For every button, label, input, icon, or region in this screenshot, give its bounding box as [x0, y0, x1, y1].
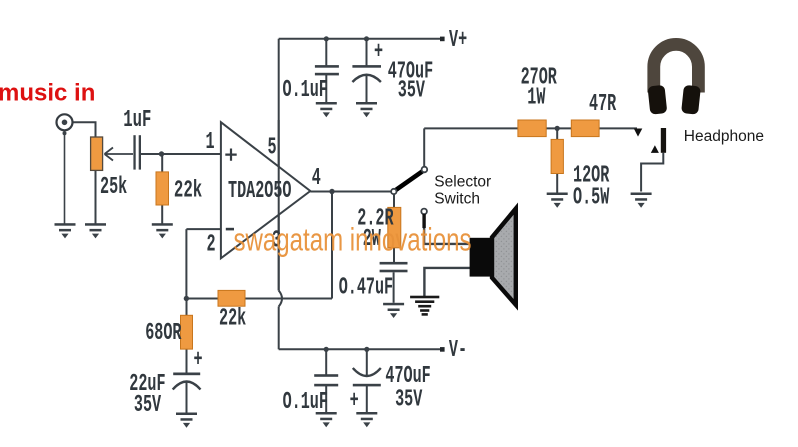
- capacitor 470uF bottom polarized: [353, 368, 381, 386]
- headphone icon left cup: [647, 85, 667, 115]
- headphone jack arrow: [634, 129, 643, 137]
- headphone icon band: [654, 44, 699, 92]
- capacitor 0.47uF plates: [380, 262, 408, 272]
- op-amp minus input symbol: [226, 228, 234, 231]
- wire headphone jack to ground: [641, 153, 663, 192]
- wire 0.1uF top: [325, 39, 327, 103]
- svg-text:O.5W: O.5W: [573, 184, 610, 212]
- wire rail to 270R: [424, 127, 519, 129]
- node 120R junction dot: [555, 126, 560, 131]
- svg-text:V+: V+: [449, 27, 467, 55]
- ground speaker earth: [410, 296, 439, 316]
- ground 120R: [547, 193, 568, 208]
- wire 2.2R to 0.47uF: [393, 248, 395, 262]
- wire 1uF right plate to pin 1: [141, 153, 221, 155]
- svg-text:4: 4: [312, 165, 321, 193]
- wire input jack to pot: [73, 122, 96, 137]
- resistor 22k input: [156, 172, 169, 205]
- headphone jack triangle: [651, 145, 659, 153]
- svg-text:O.1uF: O.1uF: [283, 389, 328, 417]
- input jack connector: [57, 114, 73, 135]
- ground 22k input: [152, 223, 173, 238]
- resistor 2.2R: [388, 207, 401, 247]
- ground 470uF bottom: [356, 412, 377, 427]
- node top rail 0.1uF dot: [324, 36, 329, 41]
- resistor 120R: [551, 139, 563, 173]
- capacitor 0.1uF top plates: [315, 65, 339, 75]
- svg-text:22k: 22k: [174, 178, 202, 205]
- potentiometer 25k: [91, 137, 103, 170]
- op-amp plus input symbol: [225, 149, 236, 161]
- ground 0.1uF bottom: [316, 412, 337, 427]
- svg-text:TDA2O5O: TDA2O5O: [228, 178, 291, 206]
- wire jack to ground: [64, 130, 66, 224]
- ground 22uF: [176, 413, 197, 428]
- selector switch bottom stub: [422, 214, 425, 228]
- wire supply line through op-amp pins 5 and 3: [278, 120, 280, 291]
- node V- terminal dot: [440, 347, 445, 352]
- wire 22uF to ground: [186, 381, 188, 413]
- wire 0.47uF to ground: [393, 272, 395, 303]
- svg-text:+: +: [350, 388, 359, 416]
- wire 470uF top: [366, 39, 368, 103]
- svg-text:music in: music in: [0, 79, 95, 106]
- svg-text:1uF: 1uF: [123, 107, 151, 134]
- ground 470uF top: [356, 102, 377, 117]
- node junction output: [329, 189, 334, 194]
- wire speaker minus to ground: [424, 268, 470, 296]
- svg-text:2: 2: [207, 231, 216, 259]
- wire junction to 22k input resistor and ground: [161, 154, 163, 224]
- node junction input: [159, 151, 164, 156]
- selector switch pole contact: [391, 189, 396, 194]
- headphone jack sleeve bar: [661, 128, 666, 153]
- svg-text:1W: 1W: [527, 84, 546, 112]
- svg-text:V-: V-: [449, 337, 467, 365]
- node bottom rail 0.1uF dot: [324, 347, 329, 352]
- wire output node down to feedback: [331, 192, 333, 299]
- wire switch pole to 2.2R: [393, 194, 395, 207]
- ground headphone jack: [631, 193, 652, 208]
- selector switch lever: [396, 171, 423, 190]
- resistor 47R: [571, 120, 599, 137]
- svg-text:swagatam innovations: swagatam innovations: [234, 221, 472, 257]
- wire 270R to 47R: [546, 127, 571, 129]
- wire V+ supply vertical pin 5: [278, 39, 280, 291]
- wire feedback node to 22k feedback resistor: [186, 298, 218, 300]
- capacitor 470uF top polarized: [352, 65, 381, 82]
- wire 470uF bottom: [366, 349, 368, 412]
- svg-text:Switch: Switch: [434, 191, 480, 208]
- capacitor 22uF polarized: [173, 373, 201, 390]
- svg-text:35V: 35V: [134, 392, 162, 420]
- node V+ terminal dot: [440, 37, 445, 42]
- svg-text:O.1uF: O.1uF: [283, 77, 328, 105]
- svg-text:Selector: Selector: [434, 173, 491, 190]
- ground jack input: [55, 223, 76, 238]
- svg-text:5: 5: [268, 134, 277, 162]
- svg-text:1: 1: [206, 129, 215, 157]
- svg-text:+: +: [374, 39, 383, 67]
- wire pin 2 to feedback node: [186, 229, 220, 298]
- node top rail 470uF dot: [364, 36, 369, 41]
- ground 0.47uF: [383, 303, 404, 318]
- wire pot wiper arrow from 1uF: [105, 148, 134, 161]
- svg-text:+: +: [194, 347, 203, 375]
- wire 680R top and bottom: [186, 299, 188, 373]
- op-amp U1 TDA2050: [221, 122, 310, 258]
- node junction feedback: [184, 296, 189, 301]
- speaker cone: [492, 209, 516, 305]
- speaker driver box: [470, 238, 493, 277]
- capacitor C 1uF plates: [133, 135, 141, 169]
- resistor 22k feedback: [218, 290, 245, 306]
- svg-text:35V: 35V: [398, 77, 426, 105]
- wire top rail V+: [279, 38, 440, 40]
- selector switch bottom contact: [421, 209, 427, 215]
- wire 0.1uF bottom: [325, 349, 327, 412]
- capacitor 0.1uF bottom plates: [314, 374, 338, 386]
- svg-text:25k: 25k: [100, 174, 127, 202]
- svg-text:22k: 22k: [219, 305, 246, 333]
- selector switch top contact: [422, 167, 428, 173]
- ground pot: [85, 223, 106, 238]
- resistor 680R: [181, 315, 193, 349]
- ground 0.1uF top: [316, 102, 337, 117]
- wire 22k feedback to output vertical: [245, 298, 332, 300]
- svg-text:Headphone: Headphone: [684, 128, 764, 145]
- resistor 270R: [518, 120, 546, 137]
- wire pin 3 to V- rail: [278, 307, 280, 350]
- svg-text:35V: 35V: [395, 386, 423, 414]
- node bottom rail 470uF dot: [364, 347, 369, 352]
- wire pot bottom to ground: [95, 171, 97, 224]
- wire bottom rail V-: [279, 348, 440, 350]
- headphone icon right cup: [681, 85, 701, 115]
- svg-text:O.47uF: O.47uF: [339, 274, 393, 302]
- svg-text:68OR: 68OR: [145, 320, 182, 348]
- wire 120R drop: [556, 128, 558, 192]
- wire switch bottom contact to speaker plus: [424, 214, 470, 244]
- wire switch top contact riser: [423, 128, 425, 166]
- svg-text:47R: 47R: [589, 91, 617, 119]
- wire 47R to headphone arrow: [599, 127, 637, 129]
- wire hop over feedback: [279, 291, 282, 307]
- wire op-amp output to switch pole: [310, 191, 391, 193]
